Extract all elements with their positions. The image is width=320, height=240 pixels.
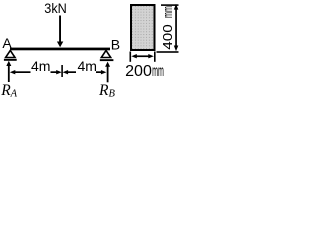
svg-text:4m: 4m <box>31 58 51 74</box>
extension line bottom (400mm) <box>157 51 179 53</box>
dimension line right span <box>63 70 107 74</box>
horizontal dimension line 200mm <box>131 54 154 58</box>
reaction arrow RB <box>105 62 110 83</box>
dimension line left span <box>10 70 62 74</box>
reaction arrow RA <box>6 61 11 82</box>
svg-text:3kN: 3kN <box>44 0 67 16</box>
support A (pin) <box>4 50 17 60</box>
svg-text:4m: 4m <box>78 58 98 74</box>
extension line left (200mm) <box>130 52 132 62</box>
dimension center tick <box>61 65 63 77</box>
svg-text:mm: mm <box>152 63 164 80</box>
extension line top <box>161 4 179 6</box>
cross-section rectangle <box>131 5 155 50</box>
vertical dimension line 400mm <box>174 4 179 51</box>
extension line right (200mm) <box>154 52 156 62</box>
svg-text:400mm: 400mm <box>160 6 175 50</box>
svg-text:200: 200 <box>125 63 152 80</box>
beam <box>10 48 110 51</box>
svg-text:B: B <box>111 36 120 52</box>
svg-text:A: A <box>2 35 12 51</box>
load arrow <box>57 16 63 48</box>
support B (pin) <box>100 50 114 61</box>
